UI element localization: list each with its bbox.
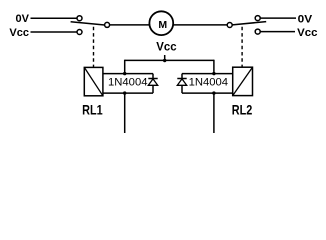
contact RL1 NC (0V) bbox=[77, 16, 82, 21]
wire rail drop to RL1 coil top bbox=[124, 60, 126, 74]
wire right NO contact to Vcc bbox=[260, 31, 295, 33]
wire Vcc to left NO contact bbox=[31, 31, 78, 33]
wire rail drop to RL2 coil top bbox=[213, 60, 215, 74]
contact RL1 NO (Vcc) bbox=[77, 30, 82, 35]
pole RL1 common bbox=[105, 22, 110, 27]
svg-text:Vcc: Vcc bbox=[297, 27, 317, 39]
contact RL2 NC (0V) bbox=[255, 16, 260, 21]
wire D2 to RL2 coil bottom bbox=[182, 92, 233, 94]
svg-text:RL2: RL2 bbox=[232, 102, 253, 118]
junction Vcc-rail bbox=[163, 59, 166, 62]
relay coil RL2 bbox=[233, 67, 253, 95]
svg-text:0V: 0V bbox=[16, 13, 30, 25]
diode D1 bbox=[148, 74, 157, 94]
wire Vcc rail bbox=[125, 59, 214, 61]
svg-text:Vcc: Vcc bbox=[9, 27, 29, 39]
contact RL2 NO (Vcc) bbox=[255, 29, 260, 34]
linkage RL1 (dashed) bbox=[93, 27, 95, 68]
wire RL2 to driver (down) bbox=[213, 93, 215, 133]
wire 0V to left NC contact bbox=[31, 17, 78, 19]
junction RL1 bottom bbox=[123, 91, 126, 94]
wire right NC contact to 0V bbox=[260, 17, 296, 19]
linkage RL2 (dashed) bbox=[241, 27, 243, 67]
wire Vcc stub bbox=[164, 55, 166, 61]
wire RL1 coil bottom to D1 bbox=[103, 92, 153, 94]
junction RL1 top bbox=[123, 72, 126, 75]
svg-text:1N4004: 1N4004 bbox=[189, 77, 229, 89]
svg-text:RL1: RL1 bbox=[82, 102, 103, 118]
svg-text:Vcc: Vcc bbox=[156, 42, 177, 54]
switch arm RL2 bbox=[232, 22, 266, 25]
diode D2 bbox=[177, 74, 186, 94]
motor M circle bbox=[149, 11, 173, 35]
svg-text:1N4004: 1N4004 bbox=[108, 77, 148, 89]
switch arm RL1 bbox=[71, 22, 105, 25]
relay coil RL1 bbox=[84, 67, 103, 95]
wire RL1 coil top to D1 bbox=[103, 73, 153, 75]
wire D2 to RL2 coil top bbox=[182, 73, 233, 75]
wire RL1 to driver (down) bbox=[124, 93, 126, 133]
svg-text:M: M bbox=[158, 19, 167, 31]
junction RL2 top bbox=[212, 72, 215, 75]
wire left pole to motor bbox=[110, 24, 150, 26]
pole RL2 common bbox=[227, 23, 232, 28]
svg-text:0V: 0V bbox=[298, 13, 313, 25]
wire motor to right pole bbox=[173, 24, 227, 26]
junction RL2 bottom bbox=[212, 91, 215, 94]
